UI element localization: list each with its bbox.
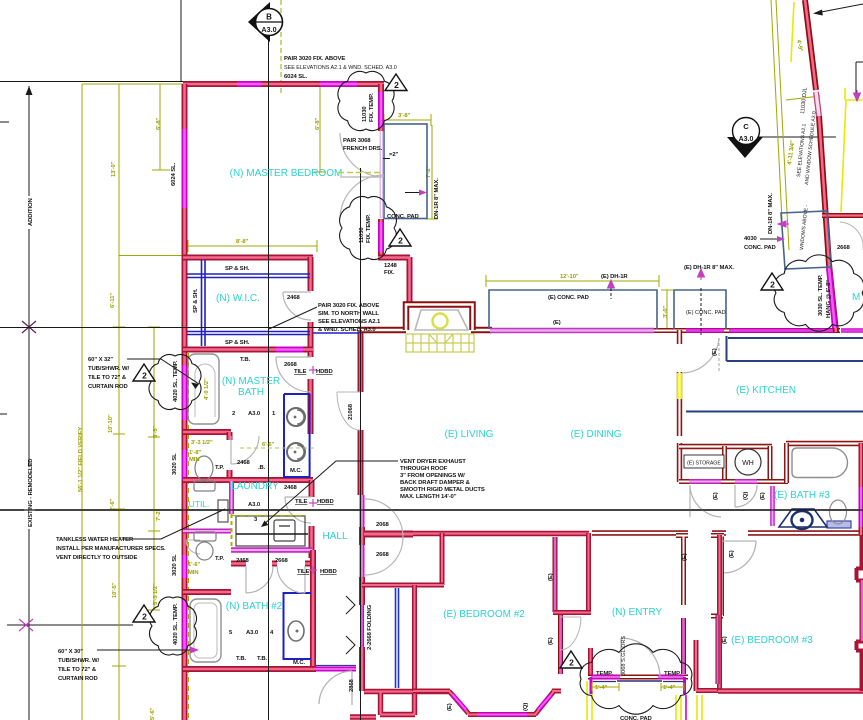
svg-text:(E): (E) (729, 550, 735, 558)
svg-text:TILE: TILE (297, 569, 310, 575)
svg-text:WH: WH (742, 460, 754, 467)
svg-text:(E) BEDROOM #3: (E) BEDROOM #3 (731, 635, 813, 646)
leader: pair3020 sim note to WIC (269, 307, 317, 329)
svg-text:2868: 2868 (349, 678, 355, 692)
vanity: bath2 (284, 593, 312, 659)
window: door openings magenta x362 (360, 495, 365, 577)
toilet: toilet room 2 (196, 542, 213, 560)
concrete pad: (E) CONC PAD large (489, 290, 657, 329)
door: WIC 2468 arc (283, 292, 311, 320)
sink: master vanity basin 1 (287, 408, 305, 426)
dimension line: french door dim y120 (384, 119, 431, 121)
svg-text:HDBD: HDBD (320, 569, 337, 575)
wall: entry closet east x588 (586, 533, 591, 613)
dimension line: x160 upper (159, 84, 161, 170)
svg-text:1248: 1248 (384, 263, 398, 269)
sink: bath3 pedestal (779, 509, 827, 529)
wall: bedroom2 east x555 magenta (553, 537, 558, 612)
svg-text:3020 SL: 3020 SL (172, 554, 178, 576)
wall: entry/bed3 north piers (676, 535, 724, 616)
window: bay windows magenta (452, 694, 551, 715)
svg-text:B: B (266, 13, 272, 22)
wall: living west x360 (358, 330, 364, 495)
window: 6024 SL west wall (182, 129, 188, 208)
wall: bedroom2 north y533 (364, 531, 413, 538)
svg-text:2668: 2668 (376, 552, 390, 558)
svg-text:11030: 11030 (359, 227, 365, 243)
wall: NE stub to right edge y215 (822, 213, 863, 218)
svg-text:4020 SL. TEMP.: 4020 SL. TEMP. (173, 360, 179, 402)
window: TEMP sidelites magenta (591, 675, 684, 680)
dimension line: olive dashed x188 lower left (188, 353, 190, 720)
shelf and pole: WIC top (187, 274, 310, 278)
svg-text:2668: 2668 (837, 245, 851, 251)
svg-text:M.C.: M.C. (293, 660, 305, 666)
svg-text:10'-10": 10'-10" (108, 414, 114, 433)
svg-text:2: 2 (569, 658, 574, 668)
svg-text:2-2668 FOLDING: 2-2668 FOLDING (367, 604, 373, 650)
window: 4020 SL TEMP bath2 (182, 600, 188, 650)
wire: horizontal datum y327 (0, 327, 361, 329)
svg-text:BATH: BATH (238, 387, 264, 398)
wall: south of living/dining y533 (592, 530, 863, 535)
svg-text:TILE TO 72" &: TILE TO 72" & (88, 375, 127, 381)
svg-text:TANKLESS WATER HEATER: TANKLESS WATER HEATER (56, 537, 134, 543)
svg-text:SP & SH.: SP & SH. (225, 340, 250, 346)
svg-text:2'-6": 2'-6" (110, 498, 116, 511)
svg-text:4030: 4030 (744, 236, 758, 242)
svg-text:6'-8": 6'-8" (156, 117, 162, 130)
wall: bedroom SE jog y257 (378, 257, 410, 303)
revision cloud: window lower right bedroom (340, 196, 397, 259)
svg-text:8'-8": 8'-8" (236, 239, 249, 245)
svg-text:3'-8": 3'-8" (398, 113, 411, 119)
REVISION CLOUDS (149, 71, 863, 714)
svg-text:PAIR 3020 FIX. ABOVE: PAIR 3020 FIX. ABOVE (284, 56, 345, 62)
olive dimension labels (rotated) (78, 39, 803, 720)
svg-text:(E): (E) (713, 492, 719, 500)
svg-text:2: 2 (142, 371, 147, 381)
wire: blue sill segment right of WIC (313, 332, 359, 334)
wall: toilet2 south y592 (183, 589, 231, 595)
shelf: bath3 below toilet (827, 521, 851, 528)
keynote triangle: 2 at entry door (560, 651, 582, 668)
svg-text:(E) CONC. PAD: (E) CONC. PAD (548, 295, 589, 301)
section marker: B/A3.0 (248, 2, 283, 42)
label box: (E) STORAGE (684, 455, 724, 468)
svg-text:(E) LIVING: (E) LIVING (445, 429, 494, 440)
door: kitchen (718, 338, 720, 372)
wall: storage/wh block top y446 (679, 444, 772, 449)
arrow: magenta down NE (854, 90, 861, 101)
door: french doors closed lavender lines (380, 131, 383, 218)
svg-text:4'-0 1/2": 4'-0 1/2" (204, 378, 210, 400)
svg-text:2: 2 (142, 612, 147, 622)
leader: (E) DH-1R arrow large pad (610, 288, 612, 299)
window: kitchen north windows magenta (686, 328, 863, 333)
wall: bedroom2 west x442 (440, 533, 445, 585)
wall: WIC south / master bath north y350 (183, 347, 313, 353)
WALLS (183, 84, 384, 720)
keynote triangle: 2 at bath2 window (133, 605, 155, 622)
svg-text:A3.0: A3.0 (248, 411, 261, 417)
svg-text:(E) STORAGE: (E) STORAGE (687, 461, 721, 467)
svg-text:BACK DRAFT DAMPER &: BACK DRAFT DAMPER & (400, 480, 471, 486)
svg-text:12'-10": 12'-10" (560, 274, 579, 280)
counter: laundry outer box (236, 516, 305, 546)
wall: entry south y677 with TEMP windows (588, 675, 688, 680)
sink: master vanity basin 2 (287, 443, 305, 461)
porch: yellow post lines bottom (587, 2, 863, 720)
svg-text:HDBD: HDBD (316, 369, 333, 375)
wall: closet north y585 (362, 583, 444, 588)
concrete pad: french doors slate rect (384, 124, 427, 219)
dimension line: pad depth x667 (666, 290, 668, 330)
dimension line: x432 vertical by french doors (431, 125, 433, 219)
svg-text:PAIR 3020 FIX. ABOVE: PAIR 3020 FIX. ABOVE (318, 303, 379, 309)
svg-text:1'-6": 1'-6" (188, 562, 201, 568)
svg-text:(E): (E) (760, 492, 766, 500)
wall: bath3 door jamb magenta x772 (770, 486, 775, 526)
wire: NE yellow vertical right edge (844, 88, 846, 100)
svg-text:10'-5": 10'-5" (112, 582, 118, 598)
svg-text:HDBD: HDBD (317, 499, 334, 505)
wall: hall east x362 segments (359, 527, 365, 691)
revision cloud: window upper right bedroom (338, 71, 394, 130)
svg-text:TUB/SHWR. W/: TUB/SHWR. W/ (58, 658, 99, 664)
wall: y330 kitchen segment (654, 328, 840, 333)
wall: entry east x696 (696, 640, 720, 691)
dimension line: small ticks left chain (113, 83, 125, 85)
wall: below closet x560 magenta (558, 615, 563, 674)
svg-text:A3.0: A3.0 (246, 630, 259, 636)
threshold: front entry (617, 680, 662, 682)
svg-text:TEMP.: TEMP. (664, 671, 681, 677)
svg-text:(E) BATH #3: (E) BATH #3 (774, 490, 830, 501)
wall: bath3 west x786 (784, 443, 789, 483)
wall: master bedroom north y84 (183, 81, 384, 87)
svg-text:(Q): (Q) (743, 492, 749, 500)
door: NE room arc (840, 222, 863, 250)
dimension line: wic width y246 (188, 245, 317, 247)
svg-text:TEMP.: TEMP. (596, 671, 613, 677)
door: entry-bedroom2 nook (560, 617, 581, 650)
svg-text:6024 SL.: 6024 SL. (284, 74, 308, 80)
window: 4020 SL TEMP west wall master bath (182, 365, 188, 420)
wall: bedroom3 south y691 (718, 688, 863, 693)
wall: master bath door head magenta y350 x276-302 (276, 347, 303, 353)
svg-text:SMOOTH RIGID METAL DUCTS: SMOOTH RIGID METAL DUCTS (400, 487, 485, 493)
door: master bath 2668 (276, 357, 311, 392)
leader: (E) DH-1R arrow small pad (700, 288, 702, 335)
leader: 4030 conc pad (760, 238, 783, 240)
wire: grid line x360 (360, 168, 362, 720)
svg-text:CURTAIN ROD: CURTAIN ROD (58, 676, 98, 682)
svg-text:T.B.: T.B. (240, 357, 251, 363)
svg-text:1'-4": 1'-4" (663, 685, 676, 691)
svg-text:(E) DINING: (E) DINING (570, 429, 621, 440)
svg-text:6024 SL.: 6024 SL. (171, 162, 177, 186)
svg-text:2468: 2468 (237, 460, 251, 466)
tub: bath2 (190, 599, 221, 662)
svg-text:DN-1R 8" MAX.: DN-1R 8" MAX. (434, 178, 440, 219)
wire: match line y625 (7, 624, 133, 626)
svg-text:(N) MASTER: (N) MASTER (222, 376, 280, 387)
svg-text:T.B.: T.B. (257, 656, 268, 662)
wall: hall south door head y668 magenta (316, 667, 356, 672)
wall: bedroom3 east edge jogs (856, 568, 863, 651)
door: french doors pair master bedroom (340, 133, 384, 177)
section marker: C/A3.0 (727, 118, 763, 159)
svg-text:(E): (E) (682, 553, 688, 561)
dimension line: x82 56ft overall (81, 84, 83, 720)
dimension line: addition/existing vertical (26, 86, 33, 720)
svg-text:11030: 11030 (362, 106, 368, 122)
svg-text:VENT DIRECTLY TO OUTSIDE: VENT DIRECTLY TO OUTSIDE (56, 555, 137, 561)
door: toilet2 (186, 540, 200, 554)
svg-text:2668: 2668 (284, 362, 298, 368)
svg-text:SEE ELEVATIONS A2.1: SEE ELEVATIONS A2.1 (318, 319, 381, 325)
wall: entry west pier x590 (588, 648, 593, 677)
label: EXISTING - REMODELED (24, 459, 35, 529)
svg-text:SEE ELEVATIONS A2.1 & WND. SCH: SEE ELEVATIONS A2.1 & WND. SCHED. A3.0 (284, 65, 397, 71)
svg-text:5'-3 1/2": 5'-3 1/2" (153, 583, 159, 605)
wall: bedroom2 south y691 + bay window (413, 691, 561, 715)
svg-text:2468: 2468 (287, 295, 301, 301)
wall: closet east x414 (412, 585, 417, 691)
keynote triangle: 2 at bedroom NE (385, 74, 407, 91)
node: blue tile tick lobby (309, 366, 317, 574)
svg-text:& WND. SCHED. A3.0: & WND. SCHED. A3.0 (318, 327, 376, 333)
svg-text:CONC. PAD: CONC. PAD (744, 245, 776, 251)
counter: front edge black (236, 533, 308, 535)
svg-text:6'-6": 6'-6" (262, 442, 275, 448)
concrete pad: 4030 CONC PAD NE sheared (781, 211, 831, 269)
svg-text:(N) ENTRY: (N) ENTRY (612, 607, 663, 618)
svg-text:3'-3 1/2": 3'-3 1/2" (191, 440, 213, 446)
door: bath2 2668 (277, 566, 305, 593)
wall: util south y531 magenta (183, 529, 231, 534)
window: 11030 FXD TEMP upper (magenta) (378, 92, 384, 128)
wall: util/laundry divider x231 magenta (229, 481, 234, 514)
dryer: laundry inner box (274, 520, 295, 541)
svg-text:M.C.: M.C. (290, 468, 302, 474)
svg-text:(E): (E) (722, 636, 728, 644)
svg-text:(E) KITCHEN: (E) KITCHEN (736, 385, 796, 396)
dimension line: conc pad width y281 (486, 280, 659, 282)
wall: laundry north y480 (183, 477, 313, 483)
svg-text:CONC. PAD: CONC. PAD (387, 214, 419, 220)
svg-text:HANG @ 6'-8": HANG @ 6'-8" (826, 280, 832, 318)
svg-text:LAUNDRY: LAUNDRY (231, 481, 279, 492)
svg-text:60" X 30": 60" X 30" (58, 649, 83, 655)
svg-text:56'-1 1/2" FIELD VERIFY: 56'-1 1/2" FIELD VERIFY (78, 427, 84, 492)
svg-text:(E): (E) (553, 320, 561, 326)
wall: master bedroom east x381 upper (378, 84, 384, 131)
svg-text:FIX. TEMP.: FIX. TEMP. (366, 214, 372, 243)
bifold doors: bedroom2 closet chevrons (346, 596, 355, 654)
porch light: stoop circle (433, 314, 448, 329)
wall: hall niche below bedroom2 (350, 691, 450, 717)
svg-text:CONC. PAD: CONC. PAD (620, 716, 652, 720)
svg-text:(Q): (Q) (523, 703, 529, 711)
wall: bath2 north door stubs y563.5 (231, 561, 315, 567)
svg-text:(N) MASTER BEDROOM: (N) MASTER BEDROOM (230, 168, 343, 179)
equipment: WH circle (735, 449, 761, 475)
svg-text:SIM. TO NORTH WALL: SIM. TO NORTH WALL (318, 311, 379, 317)
svg-text:21068: 21068 (348, 403, 354, 420)
arrow: top right to diagonal wall (816, 4, 863, 13)
leader: tub 60x30 note (97, 649, 191, 651)
keynote triangle: 2 at master bath window (133, 364, 155, 381)
svg-text:C: C (743, 122, 749, 131)
svg-text:(E): (E) (712, 348, 718, 356)
vanity: master bath (284, 394, 310, 477)
svg-text:A3.0: A3.0 (739, 136, 754, 143)
shelf and pole: WIC left vertical (202, 260, 206, 346)
wall: toilet room east x230 (227, 432, 233, 480)
svg-text:FIX. TEMP.: FIX. TEMP. (369, 93, 375, 122)
svg-text:3'-0": 3'-0" (663, 305, 669, 318)
wire: vertical grid line left top (180, 0, 182, 81)
svg-text:=2": =2" (389, 152, 399, 158)
hatch: entry stoop paving (406, 334, 474, 352)
post: below entry window left (587, 681, 592, 720)
wall: NE diagonal (805, 0, 836, 332)
closet rod: bedroom2 closet (396, 588, 399, 688)
wall: entry closet south y612 (553, 610, 591, 615)
door: hall 2068/2668 semicircle (365, 499, 403, 575)
svg-text:5'-5": 5'-5" (153, 425, 159, 438)
wall: storage/wh bottom y481 (679, 479, 788, 484)
svg-text:FRENCH DRS.: FRENCH DRS. (343, 146, 383, 152)
wall: storage/wh verticals (725, 446, 771, 481)
svg-text:3030 SL. TEMP.: 3030 SL. TEMP. (818, 274, 824, 316)
svg-text:ADDITION: ADDITION (28, 198, 34, 226)
svg-text:HALL: HALL (322, 531, 347, 542)
stoop: entry trapezoid (415, 310, 468, 330)
wall: bath2 south y669 (183, 666, 316, 672)
svg-text:SP & SH.: SP & SH. (225, 266, 250, 272)
door: laundry 2468 (285, 497, 311, 523)
svg-text:DN-1R 8" MAX.: DN-1R 8" MAX. (768, 193, 774, 234)
wall: x683 magenta lower (681, 618, 686, 674)
dimension line: x154 chain lower (153, 327, 155, 610)
svg-text:(E) DH-1R 8" MAX.: (E) DH-1R 8" MAX. (684, 265, 734, 271)
wall: laundry east x311 (309, 480, 315, 558)
svg-text:2: 2 (394, 80, 399, 90)
node: match mark X lower (19, 619, 33, 631)
svg-text:CURTAIN ROD: CURTAIN ROD (88, 384, 128, 390)
svg-text:MAX. LENGTH 14'-0": MAX. LENGTH 14'-0" (400, 494, 457, 500)
svg-text:2: 2 (398, 236, 403, 246)
svg-text:13'-0": 13'-0" (111, 161, 117, 177)
svg-text:MIN: MIN (189, 457, 200, 463)
svg-text:INSTALL PER MANUFACTURER SPECS: INSTALL PER MANUFACTURER SPECS. (56, 546, 166, 552)
keynote triangle: 2 at bedroom SE window (389, 229, 411, 246)
wall: master bedroom east x381 lower + window 11030 (378, 219, 384, 257)
sink: bath2 basin (288, 621, 304, 641)
window: 3020 SL west wall lower (182, 555, 188, 578)
revision cloud: entry door (580, 644, 692, 714)
window: yellow segment kitchen west wall (677, 373, 682, 399)
dimension line: x119 chain (118, 84, 120, 720)
shelf and pole: WIC bottom (187, 332, 310, 335)
keynote triangle: 2 at NE window (761, 273, 783, 290)
arrow: DN-1R magenta at french door pad (405, 192, 419, 194)
svg-text:THROUGH ROOF: THROUGH ROOF (400, 466, 448, 472)
olive: entry window dim brackets (592, 683, 684, 691)
node: match mark X upper (22, 321, 36, 333)
svg-text:VENT DRYER EXHAUST: VENT DRYER EXHAUST (400, 459, 466, 465)
toilet: bath3 (830, 500, 847, 524)
dimension line: horizontal tie at y84 (82, 83, 183, 85)
leader: tub 60x32 note (127, 359, 199, 384)
svg-text:1'-4": 1'-4" (595, 685, 608, 691)
dimension line: olive dashed above top wall (280, 0, 282, 95)
svg-text:2468: 2468 (236, 558, 250, 564)
water heater: util tankless (218, 500, 228, 522)
door: hall-bedroom wing 21068 (337, 392, 360, 430)
svg-text:(E): (E) (548, 573, 554, 581)
svg-text:T.B.: T.B. (236, 656, 247, 662)
door: toilet room 2468 (231, 436, 259, 464)
tub: master bath (188, 354, 219, 424)
revision cloud: bath2 window (150, 597, 197, 655)
wall: divider dashed olive lower (231, 514, 233, 548)
window: 3030 SL TEMP diagonal lower magenta (829, 268, 835, 328)
svg-text:T.P.: T.P. (215, 465, 224, 471)
door: hall-bath3 (735, 485, 757, 507)
wall: bath/toilet divider y432 (183, 429, 231, 435)
svg-text:TILE: TILE (295, 499, 308, 505)
label: ADDITION (24, 196, 35, 229)
concrete pad: (E) CONC PAD small (674, 290, 726, 329)
leader: vent dryer note (263, 461, 398, 525)
wire: horizontal datum y510 full width (0, 509, 863, 511)
svg-text:60" X 32": 60" X 32" (88, 357, 113, 363)
leader: tankless heater note (122, 509, 225, 539)
svg-text:TILE TO 72" &: TILE TO 72" & (58, 667, 97, 673)
svg-text:2068: 2068 (376, 522, 390, 528)
door: bedroom2 entry (319, 671, 352, 705)
svg-text:1'-8": 1'-8" (189, 450, 202, 456)
ROOM LABELS (cyan) (189, 168, 861, 646)
svg-text:TUB/SHWR. W/: TUB/SHWR. W/ (88, 366, 129, 372)
svg-text:EXISTING - REMODELED: EXISTING - REMODELED (28, 459, 34, 527)
svg-text:(E) CONC. PAD: (E) CONC. PAD (686, 310, 726, 316)
wire: section line C horizontal (757, 136, 836, 138)
bracket: NE right edge (856, 62, 863, 93)
wire: horizontal datum line top (0, 81, 183, 83)
svg-text:(E): (E) (548, 637, 554, 645)
svg-text:FIX.: FIX. (384, 270, 395, 276)
svg-text:(E) DH-1R: (E) DH-1R (601, 274, 628, 280)
dimension line: ne diagonal olive pair (771, 0, 783, 240)
svg-text:3068 S.GL.DRS: 3068 S.GL.DRS (621, 636, 627, 676)
dimension line: bedroom interior x320 (319, 86, 321, 172)
arrow: magenta arrowhead to bath2 tub (190, 647, 199, 654)
window: bifold opening 2-2668 magenta x362 (360, 605, 364, 647)
window: magenta door headers y481 (689, 479, 757, 484)
window: 11030 DJL in diagonal wall (816, 92, 819, 116)
wall: WIC east x311 (308, 257, 314, 352)
wall: bedroom3 east x862 (860, 535, 863, 691)
svg-text:2: 2 (770, 280, 775, 290)
door: bath2 2468 (246, 566, 273, 593)
window: 6024 SL in north wall (magenta segments) (237, 81, 357, 87)
wire: magenta porch line (685, 695, 687, 720)
